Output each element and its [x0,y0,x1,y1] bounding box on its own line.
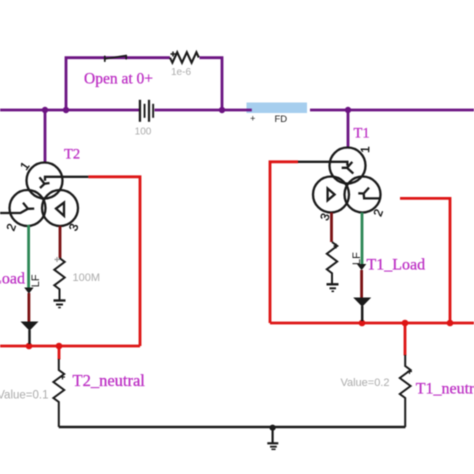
svg-text:T2_Load: T2_Load [0,271,25,288]
svg-text:T1_Load: T1_Load [367,257,426,274]
svg-text:Value=0.2: Value=0.2 [340,377,389,389]
svg-text:Value=0.1: Value=0.1 [0,389,49,401]
svg-text:100: 100 [135,127,152,138]
svg-text:LF: LF [351,252,363,265]
svg-text:T1_neutral: T1_neutral [416,381,474,398]
svg-text:1e-6: 1e-6 [171,67,191,78]
svg-text:1: 1 [358,146,372,153]
svg-text:LF: LF [30,274,42,287]
svg-text:+: + [250,114,255,124]
svg-text:T2_neutral: T2_neutral [73,371,146,390]
svg-text:T1: T1 [354,126,370,142]
svg-text:Open at 0+: Open at 0+ [84,71,153,88]
svg-text:T2: T2 [64,147,80,163]
svg-text:100M: 100M [73,272,101,284]
svg-text:FD: FD [275,114,288,125]
